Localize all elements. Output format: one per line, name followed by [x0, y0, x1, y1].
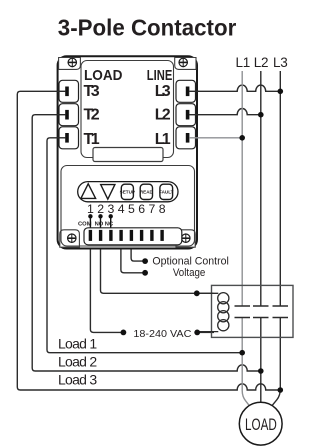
svg-text:Load 3: Load 3: [58, 372, 97, 388]
svg-text:8: 8: [159, 202, 166, 216]
svg-text:NO: NO: [95, 221, 104, 227]
svg-text:LOAD: LOAD: [84, 67, 123, 84]
svg-text:Optional Control: Optional Control: [152, 256, 229, 268]
svg-text:L3: L3: [155, 83, 171, 100]
svg-text:3-Pole Contactor: 3-Pole Contactor: [58, 15, 237, 41]
svg-text:LOAD: LOAD: [245, 416, 277, 434]
svg-text:T2: T2: [84, 107, 100, 124]
svg-text:7: 7: [148, 202, 155, 216]
svg-text:4: 4: [118, 202, 125, 216]
svg-text:LINE: LINE: [147, 67, 173, 84]
svg-text:3: 3: [107, 202, 114, 216]
svg-text:L1: L1: [235, 55, 250, 70]
svg-text:COM: COM: [78, 221, 92, 227]
svg-text:T1: T1: [84, 131, 100, 148]
svg-text:6: 6: [138, 202, 145, 216]
svg-text:READ: READ: [140, 189, 154, 194]
svg-text:18-240 VAC: 18-240 VAC: [133, 329, 191, 340]
svg-text:SETUP: SETUP: [120, 189, 135, 194]
svg-text:L2: L2: [254, 55, 269, 70]
svg-text:L3: L3: [273, 55, 288, 70]
svg-text:1: 1: [87, 202, 94, 216]
svg-text:2: 2: [97, 202, 104, 216]
svg-text:L2: L2: [155, 107, 171, 124]
svg-text:Load 2: Load 2: [58, 354, 97, 370]
svg-text:T3: T3: [84, 83, 100, 100]
svg-text:5: 5: [128, 202, 135, 216]
svg-text:Load 1: Load 1: [58, 335, 97, 351]
svg-text:Voltage: Voltage: [173, 267, 206, 279]
svg-text:NC: NC: [105, 221, 114, 227]
svg-text:FAULT: FAULT: [159, 189, 174, 194]
svg-text:L1: L1: [155, 131, 171, 148]
